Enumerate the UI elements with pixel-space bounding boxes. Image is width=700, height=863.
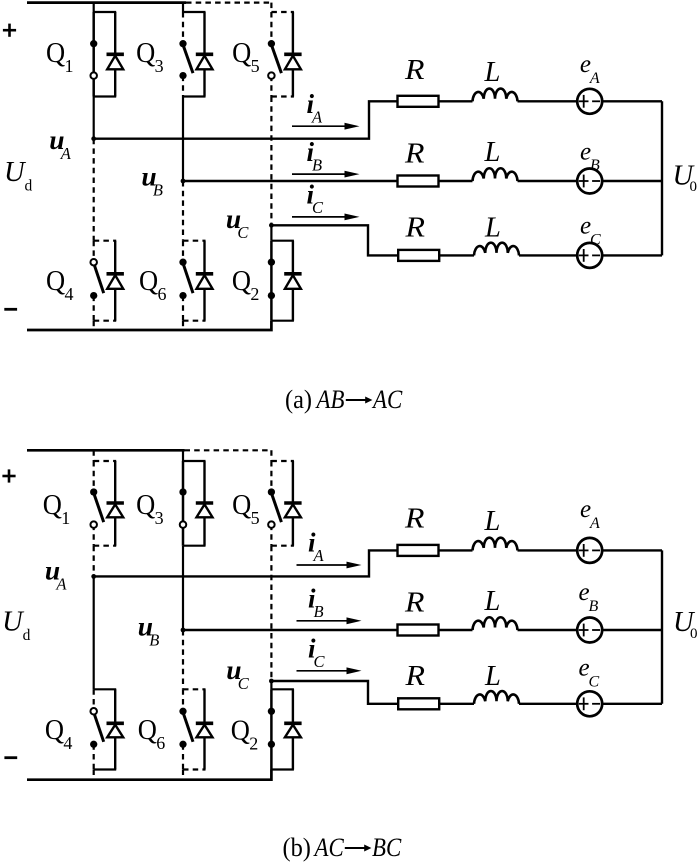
- inductor L (phase C) (b): [474, 691, 519, 704]
- label u_A (b): [45, 554, 68, 593]
- current arrow i_C (a): [292, 214, 360, 221]
- svg-text:Q: Q: [136, 36, 155, 68]
- label Q6 (a): [139, 264, 167, 304]
- transistor switch Q5 with anti-parallel diode (b): [268, 461, 302, 546]
- svg-text:B: B: [590, 157, 600, 174]
- resistor R (phase A) (b): [398, 545, 439, 556]
- label Q6 (b): [138, 713, 166, 753]
- svg-text:B: B: [589, 598, 599, 615]
- svg-text:A: A: [311, 108, 323, 127]
- label u_C (b): [226, 654, 250, 693]
- svg-text:0: 0: [690, 626, 698, 642]
- wire phase B from u_B to R (a): [183, 180, 398, 182]
- wire R to L (phase A) (b): [439, 549, 473, 551]
- label L (phase C) (a): [484, 213, 501, 244]
- wire phase A from u_A to R (a): [94, 101, 398, 138]
- svg-text:1: 1: [65, 56, 74, 76]
- label Q4 (b): [45, 713, 73, 753]
- transistor switch Q6 with anti-parallel diode (a): [179, 241, 213, 321]
- wire: node to Q4 leg (b): [93, 576, 95, 689]
- label U_0 (a): [673, 160, 698, 195]
- svg-text:L: L: [484, 661, 501, 692]
- svg-text:C: C: [590, 232, 601, 249]
- current arrow i_B (b): [297, 617, 362, 624]
- caption (a): [285, 384, 403, 414]
- label e_B (b): [579, 579, 599, 615]
- resistor R (phase B) (b): [398, 625, 439, 636]
- svg-text:(a): (a): [285, 384, 312, 414]
- label Q1 (b): [43, 488, 70, 528]
- label L (phase C) (b): [484, 661, 501, 692]
- emf source e_C (a): [577, 243, 602, 268]
- top dc rail wire (a): [27, 1, 271, 4]
- svg-text:L: L: [484, 213, 501, 244]
- node u_B junction (b): [181, 628, 186, 633]
- svg-text:Q: Q: [138, 713, 157, 745]
- wire phase C from u_C to R (a): [271, 225, 398, 255]
- wire: Q6 to - rail (b): [182, 770, 184, 780]
- svg-text:Q: Q: [232, 488, 251, 520]
- emf source e_B (a): [577, 169, 602, 194]
- dc source + terminal (b): [2, 469, 15, 482]
- wire: node to Q6 leg (a): [182, 181, 184, 241]
- svg-text:C: C: [237, 223, 249, 242]
- svg-text:R: R: [404, 660, 425, 692]
- svg-text:B: B: [153, 181, 163, 200]
- wire: Q6 to - rail (a): [182, 321, 184, 330]
- svg-text:A: A: [313, 546, 325, 565]
- label U_d (a): [4, 157, 33, 195]
- current arrow i_B (a): [292, 171, 360, 178]
- wire R to L (phase B) (b): [439, 629, 473, 631]
- transistor switch Q5 with anti-parallel diode (a): [268, 12, 302, 97]
- wire: Q5 to node u_C (b): [270, 546, 272, 681]
- node u_C junction (b): [269, 679, 274, 684]
- svg-text:Q: Q: [46, 36, 65, 68]
- svg-text:3: 3: [155, 56, 164, 76]
- svg-text:BC: BC: [372, 834, 402, 863]
- wire R to L (phase B) (a): [439, 180, 473, 182]
- label R (phase C) (a): [404, 211, 425, 243]
- svg-text:C: C: [312, 198, 324, 217]
- svg-text:B: B: [149, 631, 159, 650]
- svg-text:L: L: [484, 506, 501, 537]
- svg-text:(b): (b): [283, 832, 311, 862]
- svg-text:AB: AB: [315, 386, 345, 415]
- label i_A (b): [308, 528, 325, 566]
- bottom dc rail wire (a): [27, 321, 271, 330]
- caption (b): [283, 832, 402, 862]
- inductor L (phase A) (b): [473, 538, 518, 551]
- node u_A junction (b): [91, 574, 96, 579]
- label U_0 (b): [673, 607, 698, 642]
- svg-text:R: R: [404, 53, 425, 85]
- wire: Q1 to node u_A (a): [93, 97, 95, 139]
- dc source + terminal (a): [3, 24, 16, 37]
- resistor R (phase C) (a): [398, 250, 439, 261]
- wire: + rail to Q1 leg (a): [93, 3, 95, 12]
- label e_C (b): [579, 655, 600, 691]
- svg-text:2: 2: [249, 734, 258, 754]
- svg-text:5: 5: [251, 56, 260, 76]
- wire: + rail to Q3 leg (b): [182, 450, 184, 461]
- current arrow i_A (a): [292, 123, 360, 130]
- label Q5 (a): [232, 36, 260, 76]
- label i_C (b): [308, 634, 326, 672]
- wire: Q3 to node u_B (b): [182, 546, 184, 630]
- wire L to emf source (phase C) (a): [519, 254, 577, 256]
- wire: + rail to Q5 leg (b): [270, 450, 272, 461]
- svg-text:Q: Q: [231, 714, 250, 746]
- label u_A (a): [49, 124, 71, 163]
- wire phase A from u_A to R (b): [94, 550, 398, 576]
- svg-text:Q: Q: [139, 264, 158, 296]
- svg-text:L: L: [484, 57, 501, 88]
- wire L to emf source (phase A) (b): [518, 549, 578, 551]
- svg-text:R: R: [404, 137, 425, 169]
- inductor L (phase C) (a): [474, 243, 519, 256]
- label R (phase A) (a): [404, 53, 425, 85]
- label Q3 (b): [136, 488, 164, 528]
- svg-text:C: C: [238, 674, 250, 693]
- wire emf to output bus (phase A) (b): [602, 549, 662, 551]
- svg-text:L: L: [484, 137, 501, 168]
- wire: Q5 to node u_C (a): [270, 97, 272, 226]
- node u_A junction (a): [91, 136, 96, 141]
- resistor R (phase B) (a): [398, 176, 439, 187]
- svg-text:2: 2: [250, 284, 259, 304]
- svg-text:A: A: [589, 70, 600, 87]
- wire: Q4 to - rail (a): [93, 321, 95, 330]
- transistor switch Q2 with anti-parallel diode (b): [268, 689, 302, 769]
- wire L to emf source (phase A) (a): [518, 100, 578, 102]
- svg-text:d: d: [25, 178, 33, 195]
- output bus wire (a): [661, 101, 663, 255]
- svg-text:C: C: [314, 652, 326, 671]
- label L (phase A) (b): [484, 506, 501, 537]
- label U_d (b): [2, 607, 31, 645]
- svg-text:d: d: [23, 627, 31, 644]
- wire L to emf source (phase B) (b): [518, 629, 578, 631]
- svg-text:Q: Q: [136, 488, 155, 520]
- label L (phase B) (a): [484, 137, 501, 168]
- transistor switch Q4 with anti-parallel diode (a): [90, 241, 124, 321]
- wire: node to Q2 leg (b): [270, 681, 272, 689]
- wire: node to Q4 leg (a): [93, 139, 95, 241]
- label R (phase C) (b): [404, 660, 425, 692]
- label R (phase B) (a): [404, 137, 425, 169]
- label i_A (a): [307, 89, 324, 127]
- inductor L (phase B) (a): [473, 168, 518, 181]
- wire R to L (phase C) (a): [439, 254, 474, 256]
- svg-text:R: R: [404, 502, 425, 534]
- current arrow i_A (b): [297, 562, 362, 569]
- label Q2 (a): [232, 264, 260, 304]
- label u_B (b): [138, 611, 160, 650]
- label Q4 (a): [46, 264, 74, 304]
- node u_C junction (a): [269, 223, 274, 228]
- svg-text:6: 6: [158, 284, 167, 304]
- svg-text:AC: AC: [371, 386, 403, 415]
- wire: Q4 to - rail (b): [93, 770, 95, 780]
- wire: Q3 to node u_B (a): [182, 97, 184, 182]
- svg-text:A: A: [60, 144, 72, 163]
- label Q1 (a): [46, 36, 74, 76]
- svg-text:A: A: [589, 515, 600, 532]
- wire emf to output bus (phase C) (b): [602, 703, 662, 705]
- svg-text:0: 0: [690, 179, 698, 195]
- label u_B (a): [141, 161, 163, 200]
- wire: + rail to Q3 leg (a): [182, 3, 184, 12]
- svg-text:Q: Q: [45, 713, 64, 745]
- wire emf to output bus (phase B) (b): [602, 629, 662, 631]
- dc source - terminal (a): [4, 308, 17, 311]
- svg-text:A: A: [55, 574, 67, 593]
- label R (phase A) (b): [404, 502, 425, 534]
- label i_C (a): [307, 180, 325, 218]
- emf source e_B (b): [577, 618, 602, 643]
- inductor L (phase A) (a): [473, 89, 518, 102]
- wire phase B from u_B to R (b): [183, 629, 398, 631]
- emf source e_A (b): [577, 538, 602, 563]
- label Q5 (b): [232, 488, 260, 528]
- wire L to emf source (phase B) (a): [518, 180, 578, 182]
- wire L to emf source (phase C) (b): [519, 703, 577, 705]
- label R (phase B) (b): [404, 586, 425, 618]
- svg-text:4: 4: [63, 733, 72, 753]
- transistor switch Q1 with anti-parallel diode (a): [90, 12, 124, 97]
- svg-text:3: 3: [155, 508, 164, 528]
- svg-text:6: 6: [156, 733, 165, 753]
- wire R to L (phase A) (a): [439, 100, 473, 102]
- svg-text:Q: Q: [232, 36, 251, 68]
- current arrow i_C (b): [297, 667, 362, 674]
- transistor switch Q4 with anti-parallel diode (b): [90, 689, 124, 769]
- wire emf to output bus (phase B) (a): [602, 180, 662, 182]
- svg-text:5: 5: [251, 508, 260, 528]
- transistor switch Q1 with anti-parallel diode (b): [90, 461, 124, 546]
- wire: + rail to Q1 leg (b): [93, 450, 95, 461]
- bottom dc rail wire (b): [27, 770, 271, 780]
- label L (phase B) (b): [484, 586, 501, 617]
- emf source e_A (a): [577, 89, 602, 114]
- transistor switch Q3 with anti-parallel diode (a): [179, 12, 213, 97]
- svg-text:R: R: [404, 211, 425, 243]
- svg-text:AC: AC: [313, 834, 345, 863]
- transistor switch Q3 with anti-parallel diode (b): [179, 461, 213, 546]
- svg-text:Q: Q: [232, 264, 251, 296]
- wire: + rail to Q5 leg (a): [270, 3, 272, 12]
- label u_C (a): [226, 203, 250, 242]
- node u_B junction (a): [181, 179, 186, 184]
- svg-text:1: 1: [61, 508, 70, 528]
- inductor L (phase B) (b): [473, 617, 518, 630]
- wire phase C from u_C to R (b): [271, 681, 398, 704]
- wire emf to output bus (phase C) (a): [602, 254, 662, 256]
- svg-text:Q: Q: [43, 488, 62, 520]
- emf source e_C (b): [577, 691, 602, 716]
- output bus wire (b): [661, 550, 663, 703]
- wire: Q1 to node u_A (b): [93, 546, 95, 577]
- svg-text:4: 4: [65, 284, 74, 304]
- resistor R (phase A) (a): [398, 96, 439, 107]
- svg-text:B: B: [314, 602, 324, 621]
- svg-text:L: L: [484, 586, 501, 617]
- wire: node to Q6 leg (b): [182, 630, 184, 689]
- label i_B (a): [307, 137, 323, 175]
- svg-text:Q: Q: [46, 264, 65, 296]
- label e_A (a): [580, 51, 600, 87]
- dc source - terminal (b): [4, 756, 17, 759]
- label e_B (a): [580, 138, 600, 174]
- label e_A (b): [580, 496, 600, 532]
- label L (phase A) (a): [484, 57, 501, 88]
- top dc rail wire (b): [27, 449, 271, 452]
- label Q2 (b): [231, 714, 258, 754]
- svg-text:B: B: [312, 156, 322, 175]
- label Q3 (a): [136, 36, 164, 76]
- svg-text:R: R: [404, 586, 425, 618]
- wire: node to Q2 leg (a): [270, 225, 272, 240]
- wire emf to output bus (phase A) (a): [602, 100, 662, 102]
- transistor switch Q2 with anti-parallel diode (a): [268, 241, 302, 321]
- wire R to L (phase C) (b): [439, 703, 474, 705]
- transistor switch Q6 with anti-parallel diode (b): [179, 689, 213, 769]
- svg-text:C: C: [589, 673, 600, 690]
- resistor R (phase C) (b): [398, 698, 439, 709]
- label i_B (b): [308, 584, 324, 622]
- label e_C (a): [580, 213, 601, 249]
